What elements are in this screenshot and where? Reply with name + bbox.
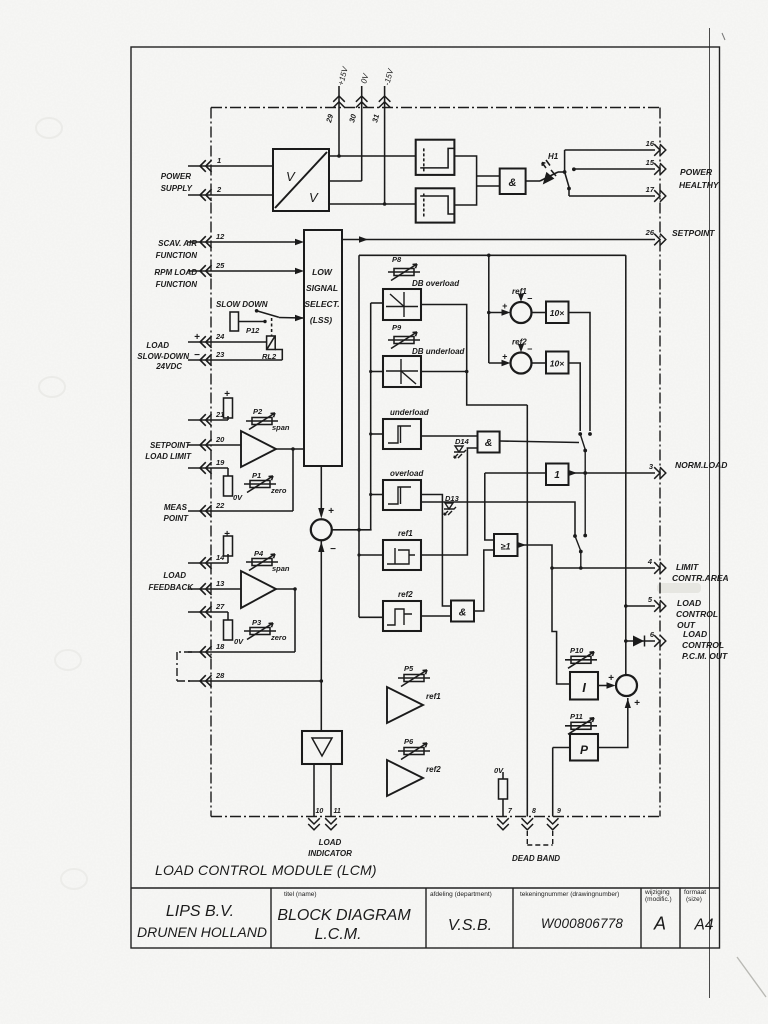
svg-text:LOW: LOW — [312, 267, 333, 277]
svg-text:P1: P1 — [252, 471, 261, 480]
svg-text:LOAD: LOAD — [677, 598, 701, 608]
svg-text:V: V — [309, 190, 319, 205]
svg-text:FEEDBACK: FEEDBACK — [149, 583, 195, 592]
svg-text:LOAD: LOAD — [319, 838, 342, 847]
svg-text:BLOCK DIAGRAM: BLOCK DIAGRAM — [277, 907, 411, 924]
svg-text:RL2: RL2 — [262, 352, 277, 361]
svg-text:CONTROL: CONTROL — [676, 609, 718, 619]
svg-text:23: 23 — [215, 350, 225, 359]
svg-text:13: 13 — [216, 579, 225, 588]
svg-text:D13: D13 — [445, 494, 460, 503]
svg-text:1: 1 — [554, 470, 560, 481]
svg-text:LOAD: LOAD — [683, 629, 707, 639]
svg-text:≥1: ≥1 — [501, 542, 511, 552]
svg-text:10: 10 — [316, 808, 324, 815]
svg-text:25: 25 — [215, 261, 225, 270]
svg-text:26: 26 — [645, 228, 655, 237]
svg-text:&: & — [509, 177, 517, 189]
svg-text:V.S.B.: V.S.B. — [448, 917, 492, 934]
svg-text:INDICATOR: INDICATOR — [308, 849, 352, 858]
svg-text:−: − — [527, 344, 533, 354]
svg-text:15: 15 — [646, 158, 655, 167]
svg-text:POWER: POWER — [161, 172, 191, 181]
svg-text:P3: P3 — [252, 618, 262, 627]
svg-text:POINT: POINT — [164, 514, 190, 523]
svg-text:+: + — [502, 301, 508, 311]
svg-text:W000806778: W000806778 — [541, 916, 624, 931]
svg-text:P6: P6 — [404, 737, 414, 746]
svg-text:SUPPLY: SUPPLY — [161, 184, 193, 193]
svg-text:P2: P2 — [253, 407, 263, 416]
svg-text:10×: 10× — [550, 359, 564, 369]
svg-text:P9: P9 — [392, 323, 402, 332]
svg-text:11: 11 — [334, 808, 341, 815]
svg-text:20: 20 — [215, 435, 225, 444]
svg-text:DRUNEN HOLLAND: DRUNEN HOLLAND — [137, 924, 267, 940]
svg-text:P8: P8 — [392, 255, 402, 264]
svg-text:24VDC: 24VDC — [155, 362, 182, 371]
svg-text:RPM LOAD: RPM LOAD — [154, 268, 197, 277]
svg-text:18: 18 — [216, 642, 225, 651]
svg-text:ref2: ref2 — [398, 590, 413, 599]
svg-text:LOAD LIMIT: LOAD LIMIT — [145, 452, 192, 461]
svg-text:P4: P4 — [254, 549, 264, 558]
svg-text:span: span — [272, 564, 290, 573]
svg-text:16: 16 — [646, 139, 655, 148]
svg-text:P.C.M. OUT: P.C.M. OUT — [682, 651, 728, 661]
svg-text:SCAV. AIR: SCAV. AIR — [158, 239, 197, 248]
svg-text:+: + — [224, 529, 230, 540]
svg-text:SELECT.: SELECT. — [304, 299, 339, 309]
svg-text:overload: overload — [390, 469, 424, 478]
svg-text:SETPOINT: SETPOINT — [672, 228, 715, 238]
svg-text:I: I — [582, 680, 586, 695]
svg-text:CONTR.AREA: CONTR.AREA — [672, 573, 729, 583]
svg-text:28: 28 — [215, 671, 225, 680]
svg-text:10×: 10× — [550, 308, 564, 318]
svg-text:POWER: POWER — [680, 167, 713, 177]
svg-text:NORM.LOAD: NORM.LOAD — [675, 460, 727, 470]
svg-text:LOAD CONTROL MODULE (LCM): LOAD CONTROL MODULE (LCM) — [155, 862, 377, 878]
svg-text:P: P — [580, 743, 589, 757]
svg-text:ref2: ref2 — [512, 338, 527, 347]
svg-text:+: + — [328, 506, 334, 517]
svg-text:+: + — [608, 673, 614, 684]
svg-text:SETPOINT: SETPOINT — [150, 441, 191, 450]
svg-text:MEAS: MEAS — [164, 503, 188, 512]
svg-text:27: 27 — [215, 602, 225, 611]
svg-text:(size): (size) — [686, 896, 702, 903]
svg-text:2: 2 — [216, 185, 222, 194]
svg-text:DEAD BAND: DEAD BAND — [512, 854, 560, 863]
svg-text:24: 24 — [215, 332, 225, 341]
svg-text:+: + — [224, 389, 230, 400]
svg-text:HEALTHY: HEALTHY — [679, 180, 720, 190]
svg-text:ref1: ref1 — [512, 287, 527, 296]
svg-text:8: 8 — [532, 808, 536, 815]
svg-text:0V: 0V — [233, 493, 243, 502]
svg-text:ref2: ref2 — [426, 765, 441, 774]
svg-text:&: & — [459, 607, 467, 619]
svg-text:(modific.): (modific.) — [645, 896, 672, 903]
svg-text:P5: P5 — [404, 664, 414, 673]
svg-text:D14: D14 — [455, 437, 470, 446]
svg-text:wijziging: wijziging — [644, 889, 670, 896]
svg-text:L.C.M.: L.C.M. — [314, 926, 361, 943]
svg-text:P10: P10 — [570, 646, 584, 655]
svg-text:SLOW-DOWN: SLOW-DOWN — [137, 352, 189, 361]
svg-text:underload: underload — [390, 408, 430, 417]
svg-text:formaat: formaat — [684, 889, 706, 896]
svg-text:FUNCTION: FUNCTION — [156, 251, 198, 260]
svg-text:+: + — [634, 698, 640, 709]
svg-text:0V: 0V — [234, 637, 244, 646]
svg-text:1: 1 — [217, 156, 221, 165]
svg-text:+: + — [502, 352, 508, 362]
svg-text:LOAD: LOAD — [163, 571, 186, 580]
svg-text:zero: zero — [270, 486, 287, 495]
svg-text:A: A — [653, 914, 666, 934]
svg-text:DB overload: DB overload — [412, 279, 460, 288]
svg-text:LOAD: LOAD — [146, 341, 169, 350]
svg-text:zero: zero — [270, 633, 287, 642]
svg-text:&: & — [485, 437, 493, 449]
svg-text:span: span — [272, 423, 290, 432]
svg-text:−: − — [194, 350, 200, 361]
svg-text:+: + — [194, 332, 200, 343]
svg-text:−: − — [330, 544, 336, 555]
svg-text:P11: P11 — [570, 712, 583, 721]
svg-text:4: 4 — [647, 557, 653, 566]
svg-text:CONTROL: CONTROL — [682, 640, 724, 650]
svg-text:ref1: ref1 — [398, 529, 413, 538]
svg-text:DB underload: DB underload — [412, 347, 466, 356]
svg-text:19: 19 — [216, 458, 225, 467]
svg-text:LIPS B.V.: LIPS B.V. — [166, 903, 234, 920]
svg-text:tekeningnummer (drawingnumber): tekeningnummer (drawingnumber) — [520, 891, 619, 898]
svg-text:H1: H1 — [548, 152, 559, 161]
svg-text:V: V — [286, 169, 296, 184]
svg-text:afdeling (department): afdeling (department) — [430, 891, 492, 898]
svg-text:17: 17 — [646, 185, 655, 194]
svg-text:LIMIT: LIMIT — [676, 562, 699, 572]
svg-text:titel (name): titel (name) — [284, 891, 317, 898]
svg-text:FUNCTION: FUNCTION — [156, 280, 198, 289]
svg-text:P12: P12 — [246, 326, 260, 335]
svg-text:22: 22 — [215, 501, 225, 510]
svg-text:12: 12 — [216, 232, 225, 241]
svg-text:−: − — [527, 294, 533, 304]
svg-text:(LSS): (LSS) — [310, 315, 332, 325]
svg-text:ref1: ref1 — [426, 692, 441, 701]
svg-text:SIGNAL: SIGNAL — [306, 283, 338, 293]
svg-text:9: 9 — [557, 808, 561, 815]
svg-text:A4: A4 — [694, 917, 714, 934]
svg-text:SLOW DOWN: SLOW DOWN — [216, 300, 268, 309]
